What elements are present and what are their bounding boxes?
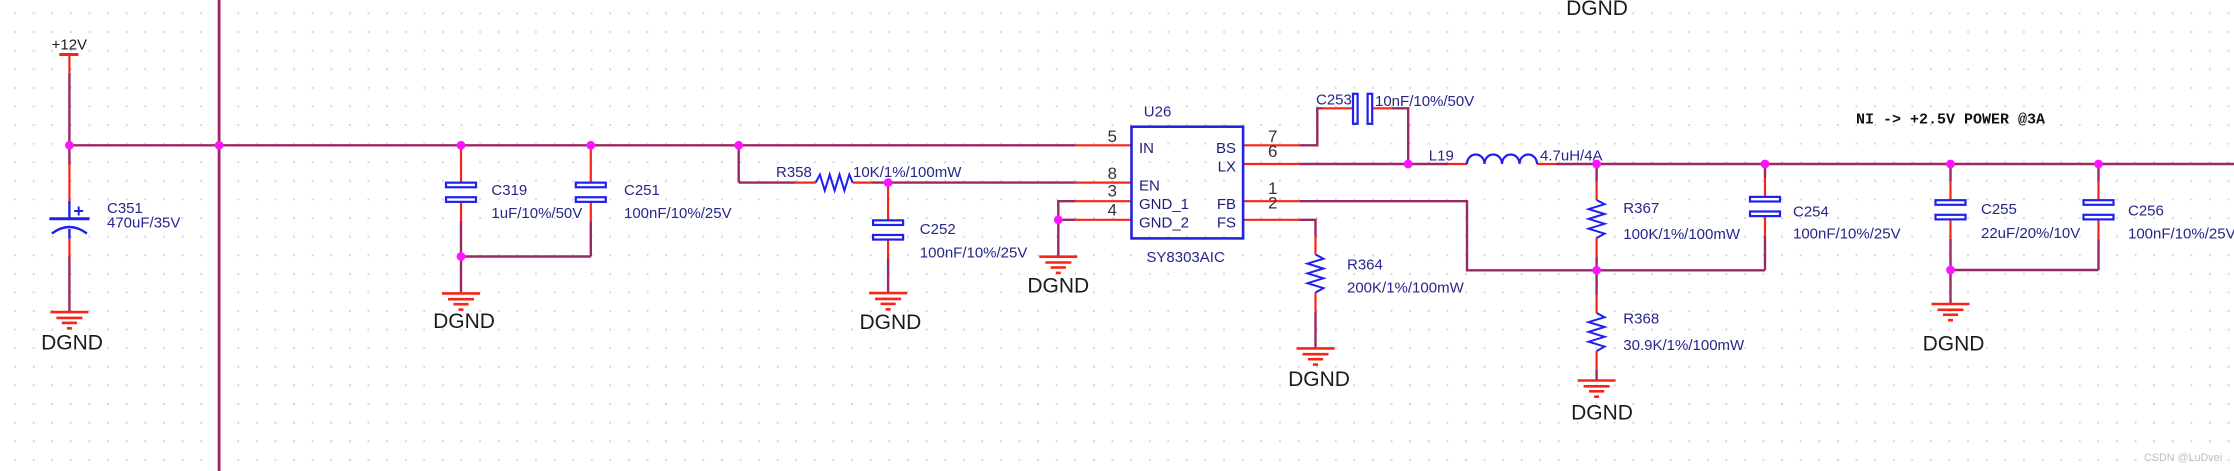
svg-text:100nF/10%/25V: 100nF/10%/25V bbox=[624, 205, 732, 222]
svg-text:C252: C252 bbox=[920, 221, 956, 238]
svg-text:4.7uH/4A: 4.7uH/4A bbox=[1540, 148, 1603, 165]
svg-text:6: 6 bbox=[1268, 142, 1277, 161]
svg-text:100nF/10%/25V: 100nF/10%/25V bbox=[2128, 226, 2234, 243]
svg-text:R358: R358 bbox=[776, 164, 812, 181]
svg-text:R364: R364 bbox=[1347, 257, 1383, 274]
svg-text:10nF/10%/50V: 10nF/10%/50V bbox=[1375, 93, 1474, 110]
svg-text:GND_2: GND_2 bbox=[1139, 215, 1189, 232]
svg-text:DGND: DGND bbox=[1288, 368, 1350, 391]
svg-text:SY8303AIC: SY8303AIC bbox=[1146, 249, 1225, 266]
svg-text:C319: C319 bbox=[491, 182, 527, 199]
svg-text:3: 3 bbox=[1108, 182, 1117, 201]
svg-text:C251: C251 bbox=[624, 182, 660, 199]
svg-text:100nF/10%/25V: 100nF/10%/25V bbox=[920, 245, 1028, 262]
svg-text:EN: EN bbox=[1139, 177, 1160, 194]
svg-text:C253: C253 bbox=[1316, 92, 1352, 109]
svg-text:470uF/35V: 470uF/35V bbox=[107, 215, 180, 232]
svg-text:C256: C256 bbox=[2128, 203, 2164, 220]
svg-text:100K/1%/100mW: 100K/1%/100mW bbox=[1623, 226, 1741, 243]
svg-text:U26: U26 bbox=[1144, 104, 1172, 121]
svg-text:30.9K/1%/100mW: 30.9K/1%/100mW bbox=[1623, 337, 1745, 354]
svg-text:2: 2 bbox=[1268, 194, 1277, 213]
svg-text:IN: IN bbox=[1139, 140, 1154, 157]
svg-text:BS: BS bbox=[1216, 140, 1236, 157]
svg-text:LX: LX bbox=[1218, 159, 1236, 176]
svg-text:5: 5 bbox=[1108, 127, 1117, 146]
svg-text:DGND: DGND bbox=[1027, 274, 1089, 297]
svg-text:DGND: DGND bbox=[1923, 332, 1985, 355]
svg-text:R367: R367 bbox=[1623, 200, 1659, 217]
svg-text:NI -> +2.5V POWER @3A: NI -> +2.5V POWER @3A bbox=[1856, 112, 2045, 129]
svg-text:DGND: DGND bbox=[41, 332, 103, 355]
svg-text:+12V: +12V bbox=[52, 37, 87, 54]
svg-text:DGND: DGND bbox=[859, 311, 921, 334]
svg-text:22uF/20%/10V: 22uF/20%/10V bbox=[1981, 225, 2080, 242]
svg-text:L19: L19 bbox=[1429, 148, 1454, 165]
svg-text:100nF/10%/25V: 100nF/10%/25V bbox=[1793, 226, 1901, 243]
svg-text:4: 4 bbox=[1108, 201, 1117, 220]
svg-text:FB: FB bbox=[1217, 196, 1236, 213]
svg-text:GND_1: GND_1 bbox=[1139, 196, 1189, 213]
svg-text:1uF/10%/50V: 1uF/10%/50V bbox=[491, 205, 582, 222]
svg-text:CSDN @LuDvei: CSDN @LuDvei bbox=[2144, 452, 2222, 464]
svg-text:C254: C254 bbox=[1793, 204, 1829, 221]
svg-text:8: 8 bbox=[1108, 164, 1117, 183]
svg-text:DGND: DGND bbox=[1566, 0, 1628, 20]
svg-text:DGND: DGND bbox=[433, 310, 495, 333]
svg-text:DGND: DGND bbox=[1571, 401, 1633, 424]
svg-text:FS: FS bbox=[1217, 215, 1236, 232]
svg-text:10K/1%/100mW: 10K/1%/100mW bbox=[853, 164, 962, 181]
svg-text:200K/1%/100mW: 200K/1%/100mW bbox=[1347, 280, 1465, 297]
svg-text:R368: R368 bbox=[1623, 311, 1659, 328]
svg-text:C255: C255 bbox=[1981, 201, 2017, 218]
